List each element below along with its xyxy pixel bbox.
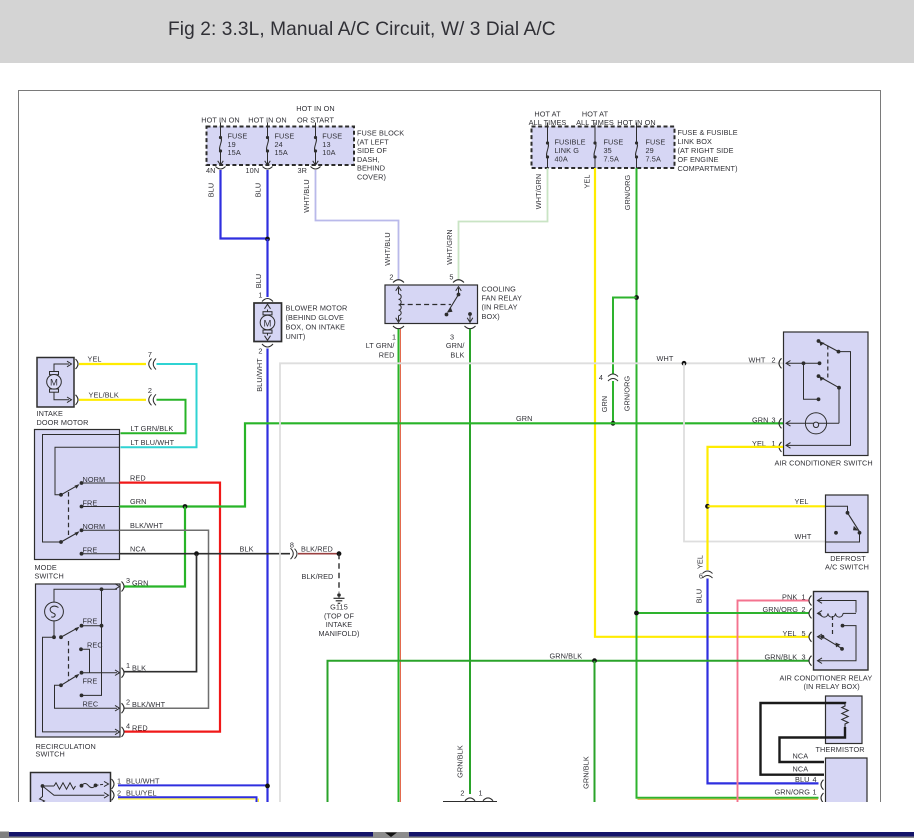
fusible link G 40A symbol <box>546 127 549 169</box>
junction GRN net <box>611 421 616 426</box>
svg-text:(TOP OF: (TOP OF <box>324 611 354 620</box>
svg-text:2: 2 <box>389 273 393 282</box>
wire GRN/ORG branch to connector 4 <box>613 298 637 375</box>
wire GRN/BLK net to A/C relay pin 3 <box>328 661 810 802</box>
svg-text:OF ENGINE: OF ENGINE <box>678 155 719 164</box>
label GRN/BLK (relay pin 3) <box>446 341 466 360</box>
label YEL 5 <box>783 629 806 638</box>
label FUSE 13 10A <box>322 132 342 158</box>
svg-text:BEHIND: BEHIND <box>357 164 385 173</box>
wire BLU/WHT from blower pin 2 down <box>266 349 268 803</box>
svg-text:2: 2 <box>148 386 152 395</box>
svg-text:BLK/WHT: BLK/WHT <box>130 521 164 530</box>
svg-text:BLK/WHT: BLK/WHT <box>132 700 166 709</box>
label GRN (below connector 4) <box>600 396 609 413</box>
connector 10N arc <box>263 167 273 170</box>
label HOT IN ON (fuse 19) <box>201 116 239 125</box>
label 7 <box>148 350 152 359</box>
svg-text:(AT RIGHT SIDE: (AT RIGHT SIDE <box>678 146 734 155</box>
wire BLK/RED dashed to ground <box>338 554 340 593</box>
wire PNK to A/C relay pin 1 <box>738 601 810 803</box>
recirc pin arrows <box>115 584 120 735</box>
svg-text:GRN/BLK: GRN/BLK <box>765 653 798 662</box>
svg-text:RED: RED <box>130 473 146 482</box>
svg-text:GRN/: GRN/ <box>446 341 466 350</box>
svg-text:NORM: NORM <box>83 522 106 531</box>
label WHT/BLU (lower) <box>383 232 392 266</box>
label FRE (recirc top) <box>83 617 98 626</box>
svg-text:NCA: NCA <box>793 752 809 761</box>
connector 8 arcs <box>291 548 298 559</box>
wire LT BLU/WHT (cyan) to mode switch <box>121 364 197 447</box>
label 8 <box>290 541 294 550</box>
svg-text:FRE: FRE <box>83 617 98 626</box>
svg-text:2: 2 <box>126 698 130 707</box>
title banner <box>0 0 914 63</box>
svg-text:Fig 2: 3.3L, Manual A/C Circui: Fig 2: 3.3L, Manual A/C Circuit, W/ 3 Di… <box>168 19 556 40</box>
svg-text:YEL: YEL <box>583 174 592 188</box>
label PNK 1 <box>782 593 806 602</box>
cooling fan relay pin 2 arc <box>393 280 404 283</box>
amplifier pin arcs <box>821 780 824 803</box>
wire BLK/WHT from mode switch NORM2 <box>120 530 209 708</box>
svg-text:4: 4 <box>813 775 817 784</box>
svg-text:NCA: NCA <box>793 765 809 774</box>
A/C amplifier box <box>826 758 868 802</box>
bottom splitter bar: lower gray strip <box>9 837 914 838</box>
svg-text:OR START: OR START <box>297 116 334 125</box>
svg-text:6: 6 <box>699 572 703 581</box>
label 5 (relay pin) <box>449 273 453 282</box>
label HOT IN ON (fuse 24) <box>248 116 286 125</box>
svg-text:HOT IN ON: HOT IN ON <box>248 116 286 125</box>
svg-text:WHT/GRN: WHT/GRN <box>445 229 454 265</box>
ground G115 <box>334 593 345 603</box>
label GRN/ORG 1 <box>775 787 817 796</box>
svg-text:FRE: FRE <box>83 498 98 507</box>
label RED <box>130 473 146 482</box>
fuse block (left, at dash) <box>207 127 355 166</box>
svg-text:3R: 3R <box>298 166 308 175</box>
svg-text:HOT IN ON: HOT IN ON <box>201 116 239 125</box>
svg-text:GRN: GRN <box>516 414 533 423</box>
label 1 (relay pin) <box>392 333 396 342</box>
label BLK <box>240 544 254 553</box>
label BLU (10N wire) <box>254 183 263 198</box>
label WHT/BLU (upper) <box>302 179 311 213</box>
svg-text:GRN/BLK: GRN/BLK <box>550 651 583 660</box>
note COOLING FAN RELAY (IN RELAY BOX) <box>482 285 523 321</box>
svg-text:(IN RELAY: (IN RELAY <box>482 303 518 312</box>
junction GRN/ORG (relay 2) <box>634 611 639 616</box>
svg-text:THERMISTOR: THERMISTOR <box>816 745 865 754</box>
svg-text:UNIT): UNIT) <box>286 332 306 341</box>
wire YEL/BLK (intake motor pin 2) <box>79 399 146 401</box>
svg-text:GRN/ORG: GRN/ORG <box>623 376 632 412</box>
svg-text:10A: 10A <box>322 148 335 157</box>
fuse 29 stub <box>636 123 638 127</box>
svg-text:ALL TIMES: ALL TIMES <box>576 118 614 127</box>
svg-text:YEL/BLK: YEL/BLK <box>89 390 119 399</box>
svg-text:BLU: BLU <box>254 274 263 289</box>
label GRN/BLK (rotated, x470) <box>456 745 465 778</box>
wire GRN/ORG from fuse 29 (long vertical to amplifier pin 1) <box>637 168 819 799</box>
wire WHT/GRN from fusible link G to cooling fan relay pin 5 <box>459 168 548 280</box>
wire BLU to blower motor pin 1 <box>266 239 268 297</box>
svg-text:1: 1 <box>813 787 817 796</box>
label GRN (mode switch) <box>130 497 147 506</box>
note AIR CONDITIONER RELAY (IN RELAY BOX) <box>780 674 873 692</box>
A/C relay pin arcs <box>809 596 812 666</box>
label NCA <box>130 544 146 553</box>
wire BLU from connector 6 to amplifier pin 4 <box>708 579 819 784</box>
fuse 13 10A symbol <box>313 127 319 166</box>
label BLK/RED (dashed) <box>302 572 334 581</box>
svg-text:BLK/RED: BLK/RED <box>301 544 333 553</box>
label LT BLU/WHT <box>131 438 175 447</box>
svg-text:GRN/ORG: GRN/ORG <box>763 605 799 614</box>
svg-text:COMPARTMENT): COMPARTMENT) <box>678 164 738 173</box>
thermistor R2 <box>826 696 863 744</box>
svg-text:WHT: WHT <box>657 354 674 363</box>
svg-text:BOX, ON INTAKE: BOX, ON INTAKE <box>286 323 346 332</box>
svg-text:WHT/BLU: WHT/BLU <box>383 232 392 266</box>
cooling fan relay K1 <box>385 285 478 324</box>
svg-text:7: 7 <box>148 350 152 359</box>
svg-text:DASH,: DASH, <box>357 155 380 164</box>
svg-text:GRN/ORG: GRN/ORG <box>623 175 632 211</box>
svg-text:LT BLU/WHT: LT BLU/WHT <box>131 438 175 447</box>
junction YEL <box>705 504 710 509</box>
svg-text:2: 2 <box>772 355 776 364</box>
fuse 35 7.5A symbol <box>593 127 596 169</box>
label 2 (relay pin) <box>389 273 393 282</box>
bottom centre connector arcs (cooling fan motor pins) <box>443 798 497 802</box>
fuse 35 stub <box>594 123 596 127</box>
cooling fan relay pin 3 arc <box>465 326 476 329</box>
wire GRN/BLK from relay pin 3 <box>469 329 471 794</box>
svg-text:40A: 40A <box>555 155 568 164</box>
label BLU (rotated) <box>695 589 704 604</box>
svg-text:GRN: GRN <box>752 415 769 424</box>
svg-text:3: 3 <box>772 415 776 424</box>
svg-text:BLOWER MOTOR: BLOWER MOTOR <box>286 304 348 313</box>
label 3 (relay pin) <box>450 333 454 342</box>
svg-text:BLU/YEL: BLU/YEL <box>126 788 157 797</box>
note DEFROST A/C SWITCH <box>825 554 869 572</box>
svg-text:GRN/BLK: GRN/BLK <box>456 745 465 778</box>
svg-text:BLK: BLK <box>450 351 464 360</box>
svg-text:(BEHIND GLOVE: (BEHIND GLOVE <box>286 313 345 322</box>
svg-text:WHT/GRN: WHT/GRN <box>534 174 543 210</box>
label 4 <box>599 373 603 382</box>
svg-text:8: 8 <box>290 541 294 550</box>
label WHT (mid) <box>657 354 674 363</box>
wire BLK branch to recirculation pin 1 <box>124 554 197 672</box>
svg-text:SWITCH: SWITCH <box>36 750 65 759</box>
label 2 BLU/YEL <box>117 788 157 797</box>
intake door motor pin arcs <box>76 359 79 405</box>
svg-text:M: M <box>50 378 58 389</box>
junction BLK/RED <box>337 551 342 556</box>
cooling fan relay pin 1 arc <box>393 326 404 329</box>
svg-text:FRE: FRE <box>83 546 98 555</box>
svg-text:LINK BOX: LINK BOX <box>678 137 712 146</box>
label YEL (rotated, above connector 6) <box>696 555 705 569</box>
label BLU/WHT (rotated) <box>255 358 264 392</box>
svg-text:LT GRN/BLK: LT GRN/BLK <box>131 424 174 433</box>
label GRN/BLK (net) <box>550 651 583 660</box>
label 2 (bottom) <box>460 789 464 798</box>
connector 7 arcs <box>149 359 156 370</box>
wire BLU/WHT (resistor pin 1) <box>118 784 267 786</box>
svg-text:YEL: YEL <box>795 497 809 506</box>
svg-text:INTAKE: INTAKE <box>37 409 63 418</box>
label 2 (connector) <box>148 386 152 395</box>
svg-text:1: 1 <box>117 777 121 786</box>
label HOT AT ALL TIMES (fuse 35) <box>576 110 614 128</box>
svg-text:BLU: BLU <box>795 775 810 784</box>
label HOT IN ON OR START (fuse 13) <box>296 104 334 125</box>
label 1 (bottom) <box>479 789 483 798</box>
fuse 19 15A symbol <box>218 127 224 166</box>
svg-text:RED: RED <box>379 351 395 360</box>
connector 6 arcs <box>703 571 713 578</box>
label 1 (blower pin) <box>258 291 262 300</box>
label REC (recirc top) <box>87 640 103 649</box>
bottom splitter bar: gray handle segment <box>373 832 409 837</box>
svg-text:FUSE BLOCK: FUSE BLOCK <box>357 129 404 138</box>
wire GRN from mode switch FRE (main GRN net) <box>120 423 784 506</box>
svg-text:1: 1 <box>258 291 262 300</box>
recirculation switch S2 <box>36 584 121 737</box>
label GRN/ORG (mid) <box>623 376 632 412</box>
svg-text:BLK/RED: BLK/RED <box>302 572 334 581</box>
svg-text:2: 2 <box>117 788 121 797</box>
svg-text:COVER): COVER) <box>357 173 386 182</box>
wire YEL from fuse 35 to A/C relay pin 5 <box>595 168 809 637</box>
wire YEL branch to defrost switch <box>708 505 826 507</box>
svg-text:GRN/BLK: GRN/BLK <box>582 756 591 789</box>
svg-text:AIR CONDITIONER SWITCH: AIR CONDITIONER SWITCH <box>775 459 873 468</box>
label 6 <box>699 572 703 581</box>
svg-text:3: 3 <box>126 576 130 585</box>
blower motor connector pin 1 arc <box>262 299 273 302</box>
label YEL (fuse 35) <box>583 174 592 188</box>
label 4N <box>206 166 216 175</box>
wire GRN/ORG to A/C relay pin 2 <box>637 612 810 614</box>
label FUSIBLE LINK G 40A <box>555 138 586 164</box>
svg-text:INTAKE: INTAKE <box>326 620 352 629</box>
label BLK/RED <box>301 544 333 553</box>
note MODE SWITCH <box>35 563 64 580</box>
connector 4 arcs <box>608 374 618 381</box>
svg-text:NCA: NCA <box>130 544 146 553</box>
svg-text:BLU: BLU <box>207 183 216 198</box>
svg-text:7.5A: 7.5A <box>604 155 619 164</box>
svg-text:1: 1 <box>802 593 806 602</box>
svg-text:COOLING: COOLING <box>482 285 517 294</box>
wire WHT branch to defrost switch <box>684 363 825 541</box>
svg-text:WHT: WHT <box>795 532 812 541</box>
label YEL (defrost) <box>795 497 809 506</box>
svg-text:BLU: BLU <box>254 183 263 198</box>
label BLK/WHT <box>130 521 164 530</box>
wire BLU/YEL (resistor pin 2) <box>118 797 258 802</box>
label YEL <box>88 355 102 364</box>
wire LT GRN/BLK to mode switch <box>121 400 186 433</box>
svg-text:YEL: YEL <box>783 629 797 638</box>
wire GRN branch to recirculation pin 3 <box>124 507 185 587</box>
label FRE (mode sw 1) <box>83 498 98 507</box>
svg-text:ALL TIMES: ALL TIMES <box>529 118 567 127</box>
blower motor M1 <box>254 303 282 342</box>
bottom splitter bar: navy band <box>9 832 914 837</box>
wire NCA/BLK from mode switch FRE2 <box>120 553 291 555</box>
label 2 (blower pin) <box>258 347 262 356</box>
label WHT 2 (pin) <box>749 355 776 364</box>
svg-text:FUSE & FUSIBLE: FUSE & FUSIBLE <box>678 128 738 137</box>
label FUSE 29 7.5A <box>646 138 666 164</box>
connector 4N arc <box>216 167 226 170</box>
svg-text:SIDE OF: SIDE OF <box>357 146 387 155</box>
junction WHT <box>682 361 687 366</box>
label HOT AT ALL TIMES (fusible link G) <box>529 110 567 128</box>
label FRE (mode sw 2) <box>83 546 98 555</box>
svg-text:HOT IN ON: HOT IN ON <box>617 118 655 127</box>
fuse F19 stub (HOT IN ON feed) <box>220 123 222 127</box>
note AIR CONDITIONER SWITCH <box>775 459 873 468</box>
label 10N <box>246 166 260 175</box>
label WHT/GRN (upper) <box>534 174 543 210</box>
recirc pin connector arcs <box>122 582 125 737</box>
label BLU 4 <box>795 775 817 784</box>
connector 3R arc <box>311 167 321 170</box>
label BLU (4N wire) <box>207 183 216 198</box>
svg-text:2: 2 <box>258 347 262 356</box>
defrost A/C switch S4 <box>826 495 869 553</box>
wire BLU from fuse 19 (4N) <box>221 170 267 239</box>
junction BLK to recirculation pin 1 <box>194 551 199 556</box>
label FUSE 24 15A <box>275 132 295 158</box>
wire NCA thermistor top to amplifier <box>761 703 846 775</box>
svg-text:15A: 15A <box>228 148 241 157</box>
label G115 (TOP OF INTAKE MANIFOLD) <box>318 603 359 639</box>
fuse & fusible link box (right, engine compartment) <box>532 127 675 169</box>
svg-text:RED: RED <box>132 724 148 733</box>
junction GRN to recirculation <box>183 504 188 509</box>
wire GRN below connector 4 <box>612 381 614 423</box>
svg-text:DOOR MOTOR: DOOR MOTOR <box>37 418 89 427</box>
svg-text:GRN: GRN <box>132 578 149 587</box>
wire BLK/RED (short) <box>298 553 339 555</box>
label 4 RED <box>126 721 148 732</box>
note INTAKE DOOR MOTOR <box>37 409 89 427</box>
fuse F13 stub <box>315 123 317 127</box>
label YEL 1 (pin) <box>752 439 776 448</box>
air conditioner relay K2 <box>814 592 869 671</box>
svg-text:REC: REC <box>83 700 99 709</box>
label GRN/BLK (rotated, x594) <box>582 756 591 789</box>
svg-text:NORM: NORM <box>83 475 106 484</box>
svg-text:WHT: WHT <box>749 355 766 364</box>
label FRE (recirc bottom) <box>83 677 98 686</box>
svg-text:BLK: BLK <box>240 544 254 553</box>
svg-text:BLK: BLK <box>132 664 146 673</box>
air conditioner switch S3 <box>784 332 869 456</box>
label 1 BLK <box>126 661 146 672</box>
svg-text:(IN RELAY BOX): (IN RELAY BOX) <box>804 682 860 691</box>
wire BLU from fuse 24 (10N) <box>266 170 268 239</box>
wire GRN/BLK branch down <box>594 661 596 802</box>
svg-text:FRE: FRE <box>83 677 98 686</box>
fusible link G stub <box>547 123 549 127</box>
svg-text:BLU: BLU <box>695 589 704 604</box>
label GRN 3 (pin) <box>752 415 776 424</box>
svg-text:YEL: YEL <box>88 355 102 364</box>
svg-text:REC: REC <box>87 640 103 649</box>
svg-text:15A: 15A <box>275 148 288 157</box>
svg-text:BLU/WHT: BLU/WHT <box>126 777 160 786</box>
mode switch S1 <box>35 430 120 560</box>
wire RED from mode switch NORM <box>120 483 221 732</box>
label BLU (blower feed) <box>254 274 263 289</box>
label HOT IN ON (fuse 29) <box>617 118 655 127</box>
label 2 BLK/WHT <box>126 698 166 709</box>
label 1 BLU/WHT <box>117 777 160 786</box>
svg-text:G115: G115 <box>330 603 348 612</box>
svg-text:5: 5 <box>802 629 806 638</box>
label GRN/ORG 2 <box>763 605 806 614</box>
svg-text:2: 2 <box>460 789 464 798</box>
label REC (recirc bottom) <box>83 700 99 709</box>
svg-text:4N: 4N <box>206 166 216 175</box>
svg-text:M: M <box>263 318 271 329</box>
label 3 (clipped) <box>813 801 817 810</box>
svg-text:1: 1 <box>479 789 483 798</box>
svg-text:HOT IN ON: HOT IN ON <box>296 104 334 113</box>
junction GRN/BLK <box>592 658 597 663</box>
cooling fan relay pin 5 arc <box>453 280 464 283</box>
label GRN (net, mid) <box>516 414 533 423</box>
wire YEL from A/C switch pin 1 <box>708 447 784 570</box>
bottom splitter bar: down triangle <box>385 833 397 838</box>
svg-text:3: 3 <box>802 653 806 662</box>
svg-text:2: 2 <box>802 605 806 614</box>
note FUSE & FUSIBLE LINK BOX (AT RIGHT SIDE OF ENGINE COMPARTMENT) <box>678 128 738 173</box>
label 3 GRN <box>126 576 149 587</box>
svg-text:GRN/ORG: GRN/ORG <box>775 787 811 796</box>
fuse 29 7.5A symbol <box>635 127 638 169</box>
svg-text:GRN: GRN <box>600 396 609 413</box>
connector 2 arcs <box>149 394 156 405</box>
wire YEL (intake motor pin 7) <box>79 363 146 365</box>
label NORM (mode sw 1) <box>83 475 106 484</box>
svg-text:SWITCH: SWITCH <box>35 571 64 580</box>
note RECIRCULATION SWITCH <box>36 742 96 759</box>
svg-text:4: 4 <box>126 721 130 730</box>
label FUSE 19 15A <box>228 132 248 158</box>
svg-text:1: 1 <box>126 661 130 670</box>
wire WHT/BLU from fuse 13 (3R) to cooling fan relay pin 2 <box>316 170 399 280</box>
svg-text:PNK: PNK <box>782 593 797 602</box>
label FUSE 35 7.5A <box>604 138 624 164</box>
note FUSE BLOCK (AT LEFT SIDE OF DASH, BEHIND COVER) <box>357 129 404 182</box>
svg-text:4: 4 <box>599 373 603 382</box>
svg-text:A/C SWITCH: A/C SWITCH <box>825 563 869 572</box>
label NCA (lower) <box>793 765 809 774</box>
blower motor pin 2 arc <box>262 344 273 347</box>
